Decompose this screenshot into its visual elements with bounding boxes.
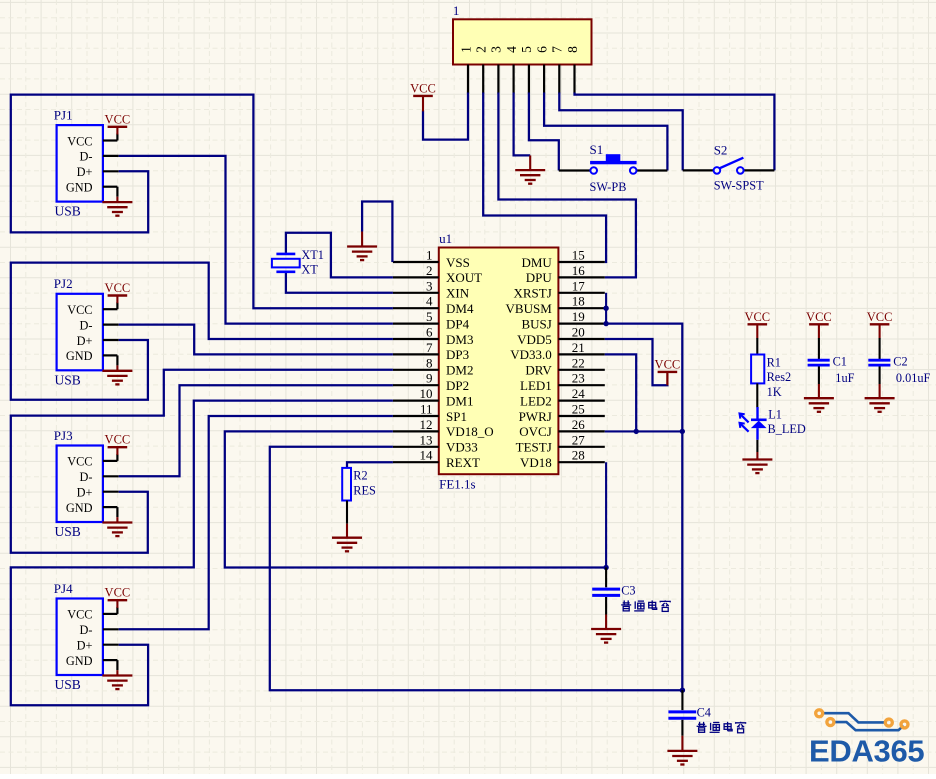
wire VD18 to VD18_O (U1 pin12) — [225, 431, 606, 567]
wire PJ2 D- to U1 pin7 DP3 — [119, 325, 393, 355]
svg-text:USB: USB — [55, 204, 81, 219]
wire XT1 bottom to U1 pin3 XIN — [286, 273, 393, 293]
svg-text:13: 13 — [420, 432, 433, 447]
U1 pin 28 VD18 — [520, 448, 605, 470]
U1 pin 9 DP2 — [393, 371, 469, 393]
svg-text:D+: D+ — [77, 165, 93, 179]
PJ3 pin VCC — [103, 454, 118, 461]
ground stem C1 — [818, 384, 820, 398]
svg-text:19: 19 — [572, 309, 585, 324]
svg-text:VSS: VSS — [446, 255, 470, 270]
svg-text:DP3: DP3 — [446, 347, 469, 362]
svg-text:B_LED: B_LED — [768, 422, 806, 436]
wire header pin1 to VCC — [423, 93, 468, 140]
svg-text:LED2: LED2 — [520, 393, 552, 408]
wire U1 pin21 VD33.0 down — [605, 354, 636, 431]
op-amp U1 FE1.1s body — [439, 231, 559, 492]
wire header pin7 to S2 left — [559, 93, 682, 171]
ground (C2) — [865, 398, 895, 412]
svg-text:VCC: VCC — [867, 310, 893, 324]
svg-text:7: 7 — [426, 340, 433, 355]
power VCC (PJ3) stem — [116, 447, 118, 455]
U1 pin 6 DM3 — [393, 325, 474, 347]
wire header pin5 to S1 left — [529, 93, 559, 171]
svg-text:DMU: DMU — [521, 255, 552, 270]
svg-text:1K: 1K — [767, 385, 782, 399]
wire header pin4 to ground — [514, 93, 531, 156]
svg-text:LED1: LED1 — [520, 378, 552, 393]
svg-text:RES: RES — [353, 483, 376, 497]
ground (PJ1) — [102, 202, 132, 216]
connector PJ2 USB — [54, 276, 103, 387]
svg-text:VCC: VCC — [105, 586, 131, 600]
wire PJ4 D- to U1 pin11 SP1 — [119, 416, 393, 629]
connector 1 pin 7 — [550, 46, 565, 94]
ground (PJ2) — [102, 371, 132, 385]
svg-text:14: 14 — [420, 448, 434, 463]
PJ3 pin GND — [103, 507, 118, 517]
connector 1 pin 2 — [474, 46, 489, 93]
power VCC (PJ4) — [105, 586, 131, 601]
ground stem (PJ4) — [116, 670, 118, 675]
U1 pin 14 REXT — [393, 448, 480, 470]
svg-text:DM3: DM3 — [446, 332, 473, 347]
ground stem (PJ2) — [116, 365, 118, 370]
svg-text:DP4: DP4 — [446, 316, 470, 331]
PJ1 pin GND — [103, 187, 118, 197]
label label C3 putongdianrong — [621, 600, 670, 611]
svg-text:VCC: VCC — [105, 433, 131, 447]
svg-text:1: 1 — [453, 3, 460, 18]
U1 pin 5 DP4 — [393, 309, 470, 331]
svg-text:24: 24 — [572, 386, 586, 401]
capacitor C4 — [668, 690, 711, 736]
svg-text:5: 5 — [519, 46, 534, 53]
svg-text:VCC: VCC — [744, 310, 770, 324]
svg-text:GND: GND — [66, 501, 93, 515]
junction C4 — [680, 688, 685, 693]
svg-text:15: 15 — [572, 248, 585, 263]
U1 pin 18 VBUSM — [506, 294, 605, 316]
svg-text:DM2: DM2 — [446, 363, 473, 378]
svg-text:L1: L1 — [768, 407, 782, 421]
svg-text:USB: USB — [55, 524, 81, 539]
svg-text:VCC: VCC — [67, 303, 92, 317]
svg-text:11: 11 — [420, 402, 433, 417]
junction pin21/pin26 — [634, 429, 639, 434]
svg-text:21: 21 — [572, 340, 585, 355]
PJ4 pin GND — [103, 660, 118, 670]
wire VCC to C1 — [818, 338, 820, 359]
PJ3 pin D- — [103, 475, 119, 477]
svg-text:VCC: VCC — [806, 310, 832, 324]
ground (C3) — [591, 629, 621, 643]
U1 pin 10 DM1 — [393, 386, 474, 408]
svg-text:VCC: VCC — [67, 608, 92, 622]
connector 1 pin 8 — [565, 46, 580, 94]
PJ1 pin D+ — [103, 170, 119, 172]
junction pin18 — [603, 306, 608, 311]
svg-text:R2: R2 — [353, 469, 367, 483]
connector 1 pin 5 — [519, 46, 534, 94]
svg-text:4: 4 — [504, 46, 519, 53]
svg-text:3: 3 — [489, 46, 504, 53]
svg-text:7: 7 — [550, 46, 565, 53]
wire PJ3 D- to U1 pin9 DP2 — [119, 385, 393, 476]
svg-text:VBUSM: VBUSM — [506, 301, 553, 316]
svg-text:XRSTJ: XRSTJ — [514, 286, 552, 301]
ground (C1) — [804, 398, 834, 412]
power VCC (PJ4) stem — [116, 600, 118, 608]
PJ2 pin D+ — [103, 339, 119, 341]
power VCC pin20 stem — [666, 372, 668, 385]
power VCC (PJ3) — [105, 433, 131, 448]
wire header pin2 to U1 pin15 — [483, 93, 606, 263]
power VCC (C2) — [867, 310, 893, 339]
svg-text:D-: D- — [80, 470, 93, 484]
ground stem L1 — [756, 452, 758, 460]
svg-text:1uF: 1uF — [835, 371, 854, 385]
svg-text:2: 2 — [474, 46, 489, 53]
junction C3 — [603, 565, 608, 570]
svg-text:XT: XT — [301, 263, 318, 277]
wire S1 right terminal — [637, 169, 668, 171]
U1 pin 3 XIN — [393, 278, 470, 300]
ground stem U1 pin1 — [361, 232, 363, 247]
svg-text:VD18_O: VD18_O — [446, 424, 494, 439]
ground (PJ4) — [102, 676, 132, 690]
U1 pin 21 VD33.0 — [510, 340, 605, 362]
svg-text:SW-SPST: SW-SPST — [714, 178, 764, 192]
svg-text:FE1.1s: FE1.1s — [439, 477, 475, 492]
svg-text:28: 28 — [572, 448, 585, 463]
power VCC (C1) — [806, 310, 832, 339]
ground stem C3 — [605, 615, 607, 630]
crystal XT1 XT — [272, 248, 324, 277]
svg-text:GND: GND — [66, 654, 93, 668]
U1 pin 22 DRV — [525, 355, 604, 377]
svg-text:0.01uF: 0.01uF — [896, 371, 931, 385]
resistor R2 RES — [342, 468, 376, 501]
svg-text:S2: S2 — [714, 142, 728, 157]
PJ1 pin D- — [103, 155, 119, 157]
svg-text:XIN: XIN — [446, 286, 470, 301]
svg-text:u1: u1 — [439, 231, 452, 246]
svg-text:D-: D- — [80, 623, 93, 637]
label label C4 putongdianrong — [697, 722, 746, 733]
wire S2 left terminal — [683, 169, 714, 171]
ground stem (PJ1) — [116, 197, 118, 202]
svg-text:1: 1 — [458, 46, 473, 53]
wire XT1 top to U1 pin2 XOUT — [286, 233, 393, 278]
svg-text:2: 2 — [426, 263, 433, 278]
U1 pin 16 DPU — [526, 263, 605, 285]
svg-text:17: 17 — [572, 278, 586, 293]
connector 1 pin 3 — [489, 46, 504, 94]
svg-text:VCC: VCC — [105, 281, 131, 295]
wire U1 pin26 OVCJ row — [605, 430, 683, 432]
svg-text:SW-PB: SW-PB — [590, 180, 627, 194]
svg-text:DP2: DP2 — [446, 378, 469, 393]
svg-text:VCC: VCC — [67, 134, 92, 148]
svg-text:DPU: DPU — [526, 270, 553, 285]
svg-text:XT1: XT1 — [301, 248, 324, 262]
svg-text:4: 4 — [426, 294, 433, 309]
svg-text:25: 25 — [572, 402, 585, 417]
svg-text:DRV: DRV — [525, 363, 552, 378]
wire header pin3 to U1 pin16 — [498, 93, 636, 278]
wire PJ1 D+ loop to U1 pin4 DM4 — [11, 95, 393, 309]
svg-text:OVCJ: OVCJ — [519, 424, 552, 439]
ground stem (PJ3) — [116, 517, 118, 522]
U1 pin 26 OVCJ — [519, 417, 605, 439]
wire U1 pin14 REXT to R2 — [347, 462, 393, 468]
wire R1 to L1 — [756, 383, 758, 407]
wire U1 pin28 VD18 down to C3 — [605, 462, 607, 567]
svg-text:23: 23 — [572, 371, 585, 386]
svg-text:C2: C2 — [893, 355, 907, 369]
wire C2 to ground — [879, 367, 881, 385]
svg-text:D-: D- — [80, 150, 93, 164]
wire header pin6 to S1 right — [544, 93, 667, 171]
ground stem C2 — [879, 384, 881, 398]
wire U1 pin20 VDD5 to VCC — [605, 339, 668, 385]
svg-text:5: 5 — [426, 309, 433, 324]
PJ4 pin D- — [103, 628, 119, 630]
connector PJ4 USB — [54, 581, 103, 692]
svg-text:VD33.0: VD33.0 — [510, 347, 552, 362]
U1 pin 11 SP1 — [393, 402, 467, 424]
svg-text:PJ4: PJ4 — [54, 581, 73, 596]
ground stem R2 — [346, 524, 348, 538]
wire VCC to C2 — [879, 338, 881, 359]
connector 1 (8-pin header) — [453, 3, 592, 65]
U1 pin 23 LED1 — [520, 371, 605, 393]
svg-text:DM1: DM1 — [446, 393, 473, 408]
svg-text:D-: D- — [80, 318, 93, 332]
ground (header pin4) — [515, 170, 545, 184]
svg-text:REXT: REXT — [446, 455, 480, 470]
svg-text:1: 1 — [426, 248, 433, 263]
wire PJ2 D+ loop to U1 pin6 DM3 — [11, 263, 393, 400]
U1 pin 20 VDD5 — [517, 325, 605, 347]
wire U1 pin13 VD33 down to C4 bus — [270, 447, 683, 690]
EDA365 logo pads — [816, 710, 908, 728]
svg-text:R1: R1 — [767, 355, 781, 369]
wire U1 pin1 to ground hook — [362, 202, 392, 263]
connector PJ1 USB — [54, 108, 103, 219]
EDA365 logo traces — [823, 713, 904, 730]
svg-text:XOUT: XOUT — [446, 270, 482, 285]
PJ2 pin VCC — [103, 302, 118, 309]
svg-text:GND: GND — [66, 181, 93, 195]
U1 pin 12 VD18_O — [393, 417, 494, 439]
U1 pin 25 PWRJ — [519, 402, 605, 424]
PJ2 pin D- — [103, 324, 119, 326]
capacitor C3 — [592, 568, 635, 615]
wire header pin8 to S2 right — [575, 93, 775, 171]
power VCC (U1 pin20) — [655, 357, 681, 385]
svg-text:6: 6 — [426, 325, 433, 340]
wire PJ3 D+ loop to U1 pin8 DM2 — [11, 370, 393, 553]
svg-text:VCC: VCC — [410, 81, 436, 95]
switch S2 SW-SPST — [714, 142, 764, 192]
ground (L1) — [742, 460, 772, 474]
U1 pin 17 XRSTJ — [514, 278, 605, 300]
svg-text:22: 22 — [572, 355, 585, 370]
svg-text:VDD5: VDD5 — [517, 332, 552, 347]
svg-text:20: 20 — [572, 325, 585, 340]
svg-text:C1: C1 — [833, 355, 847, 369]
svg-text:VCC: VCC — [67, 455, 92, 469]
svg-text:PJ1: PJ1 — [54, 108, 73, 123]
power VCC (R1) — [744, 310, 770, 339]
svg-text:S1: S1 — [590, 142, 604, 157]
PJ4 pin D+ — [103, 644, 119, 646]
svg-text:VD18: VD18 — [520, 455, 552, 470]
svg-text:USB: USB — [55, 677, 81, 692]
wire L1 to ground — [756, 440, 758, 452]
svg-text:12: 12 — [420, 417, 433, 432]
capacitor C2 0.01uF — [868, 355, 930, 386]
ground stem C4 — [681, 736, 683, 751]
power VCC (PJ1) stem — [116, 127, 118, 135]
svg-text:PJ3: PJ3 — [54, 428, 73, 443]
ground (R2) — [332, 538, 362, 552]
U1 pin 15 DMU — [521, 248, 604, 270]
svg-text:VD33: VD33 — [446, 440, 478, 455]
U1 pin 27 TESTJ — [516, 432, 605, 454]
svg-text:26: 26 — [572, 417, 586, 432]
wire PJ1 D- to U1 pin5 DP4 — [119, 156, 393, 324]
wire VCC to R1 — [756, 338, 758, 355]
connector 1 pin 1 — [458, 46, 473, 93]
svg-text:EDA365: EDA365 — [809, 734, 924, 769]
svg-text:D+: D+ — [77, 486, 93, 500]
PJ3 pin D+ — [103, 491, 119, 493]
svg-text:18: 18 — [572, 294, 585, 309]
U1 pin 13 VD33 — [393, 432, 478, 454]
ground stem header pin4 — [529, 155, 531, 170]
svg-text:D+: D+ — [77, 639, 93, 653]
wire S1 left terminal — [559, 169, 591, 171]
svg-text:BUSJ: BUSJ — [521, 316, 551, 331]
junction pin19 — [603, 321, 608, 326]
connector PJ3 USB — [54, 428, 103, 539]
svg-text:27: 27 — [572, 432, 586, 447]
svg-text:SP1: SP1 — [446, 409, 467, 424]
svg-text:TESTJ: TESTJ — [516, 440, 552, 455]
wire C1 to ground — [818, 367, 820, 385]
svg-text:8: 8 — [426, 355, 433, 370]
wire R2 bottom lead — [346, 501, 348, 524]
svg-text:Res2: Res2 — [767, 370, 792, 384]
U1 pin 19 BUSJ — [521, 309, 604, 331]
svg-text:DM4: DM4 — [446, 301, 474, 316]
PJ2 pin GND — [103, 355, 118, 365]
svg-text:C3: C3 — [621, 583, 635, 597]
power VCC (PJ1) — [105, 112, 131, 127]
svg-text:8: 8 — [565, 46, 580, 53]
svg-text:16: 16 — [572, 263, 586, 278]
wire PJ4 D+ loop to U1 pin10 DM1 — [11, 401, 393, 706]
U1 pin 4 DM4 — [393, 294, 474, 316]
resistor R1 Res2 1K — [751, 355, 791, 399]
capacitor C1 1uF — [808, 355, 855, 386]
svg-text:VCC: VCC — [655, 357, 681, 371]
svg-text:6: 6 — [534, 46, 549, 53]
connector 1 pin 6 — [534, 46, 549, 94]
ground (PJ3) — [102, 523, 132, 537]
svg-text:9: 9 — [426, 371, 433, 386]
ground (U1 pin1) — [347, 247, 377, 261]
wire S2 right terminal — [744, 169, 775, 171]
U1 pin 8 DM2 — [393, 355, 474, 377]
LED L1 B_LED — [740, 407, 806, 440]
svg-text:VCC: VCC — [105, 112, 131, 126]
U1 pin 24 LED2 — [520, 386, 605, 408]
svg-text:USB: USB — [55, 372, 81, 387]
power VCC (PJ2) stem — [116, 296, 118, 304]
power VCC top — [410, 81, 436, 111]
svg-text:D+: D+ — [77, 334, 93, 348]
PJ1 pin VCC — [103, 134, 118, 141]
svg-text:3: 3 — [426, 278, 433, 293]
svg-text:GND: GND — [66, 349, 93, 363]
svg-text:C4: C4 — [697, 706, 711, 720]
svg-text:PWRJ: PWRJ — [519, 409, 552, 424]
U1 pin 7 DP3 — [393, 340, 469, 362]
ground (C4) — [667, 751, 697, 765]
junction pin26 bus — [680, 429, 685, 434]
PJ4 pin VCC — [103, 607, 118, 614]
U1 pin 2 XOUT — [393, 263, 482, 285]
connector 1 pin 4 — [504, 46, 519, 94]
wire U1 pins 17-18-19 tie — [605, 293, 607, 324]
wire U1 pin19 BUSJ to right bus — [606, 324, 682, 691]
U1 pin 1 VSS — [393, 248, 470, 270]
svg-text:PJ2: PJ2 — [54, 276, 73, 291]
svg-text:10: 10 — [420, 386, 433, 401]
power VCC (PJ2) — [105, 281, 131, 296]
switch S1 SW-PB — [590, 142, 637, 194]
